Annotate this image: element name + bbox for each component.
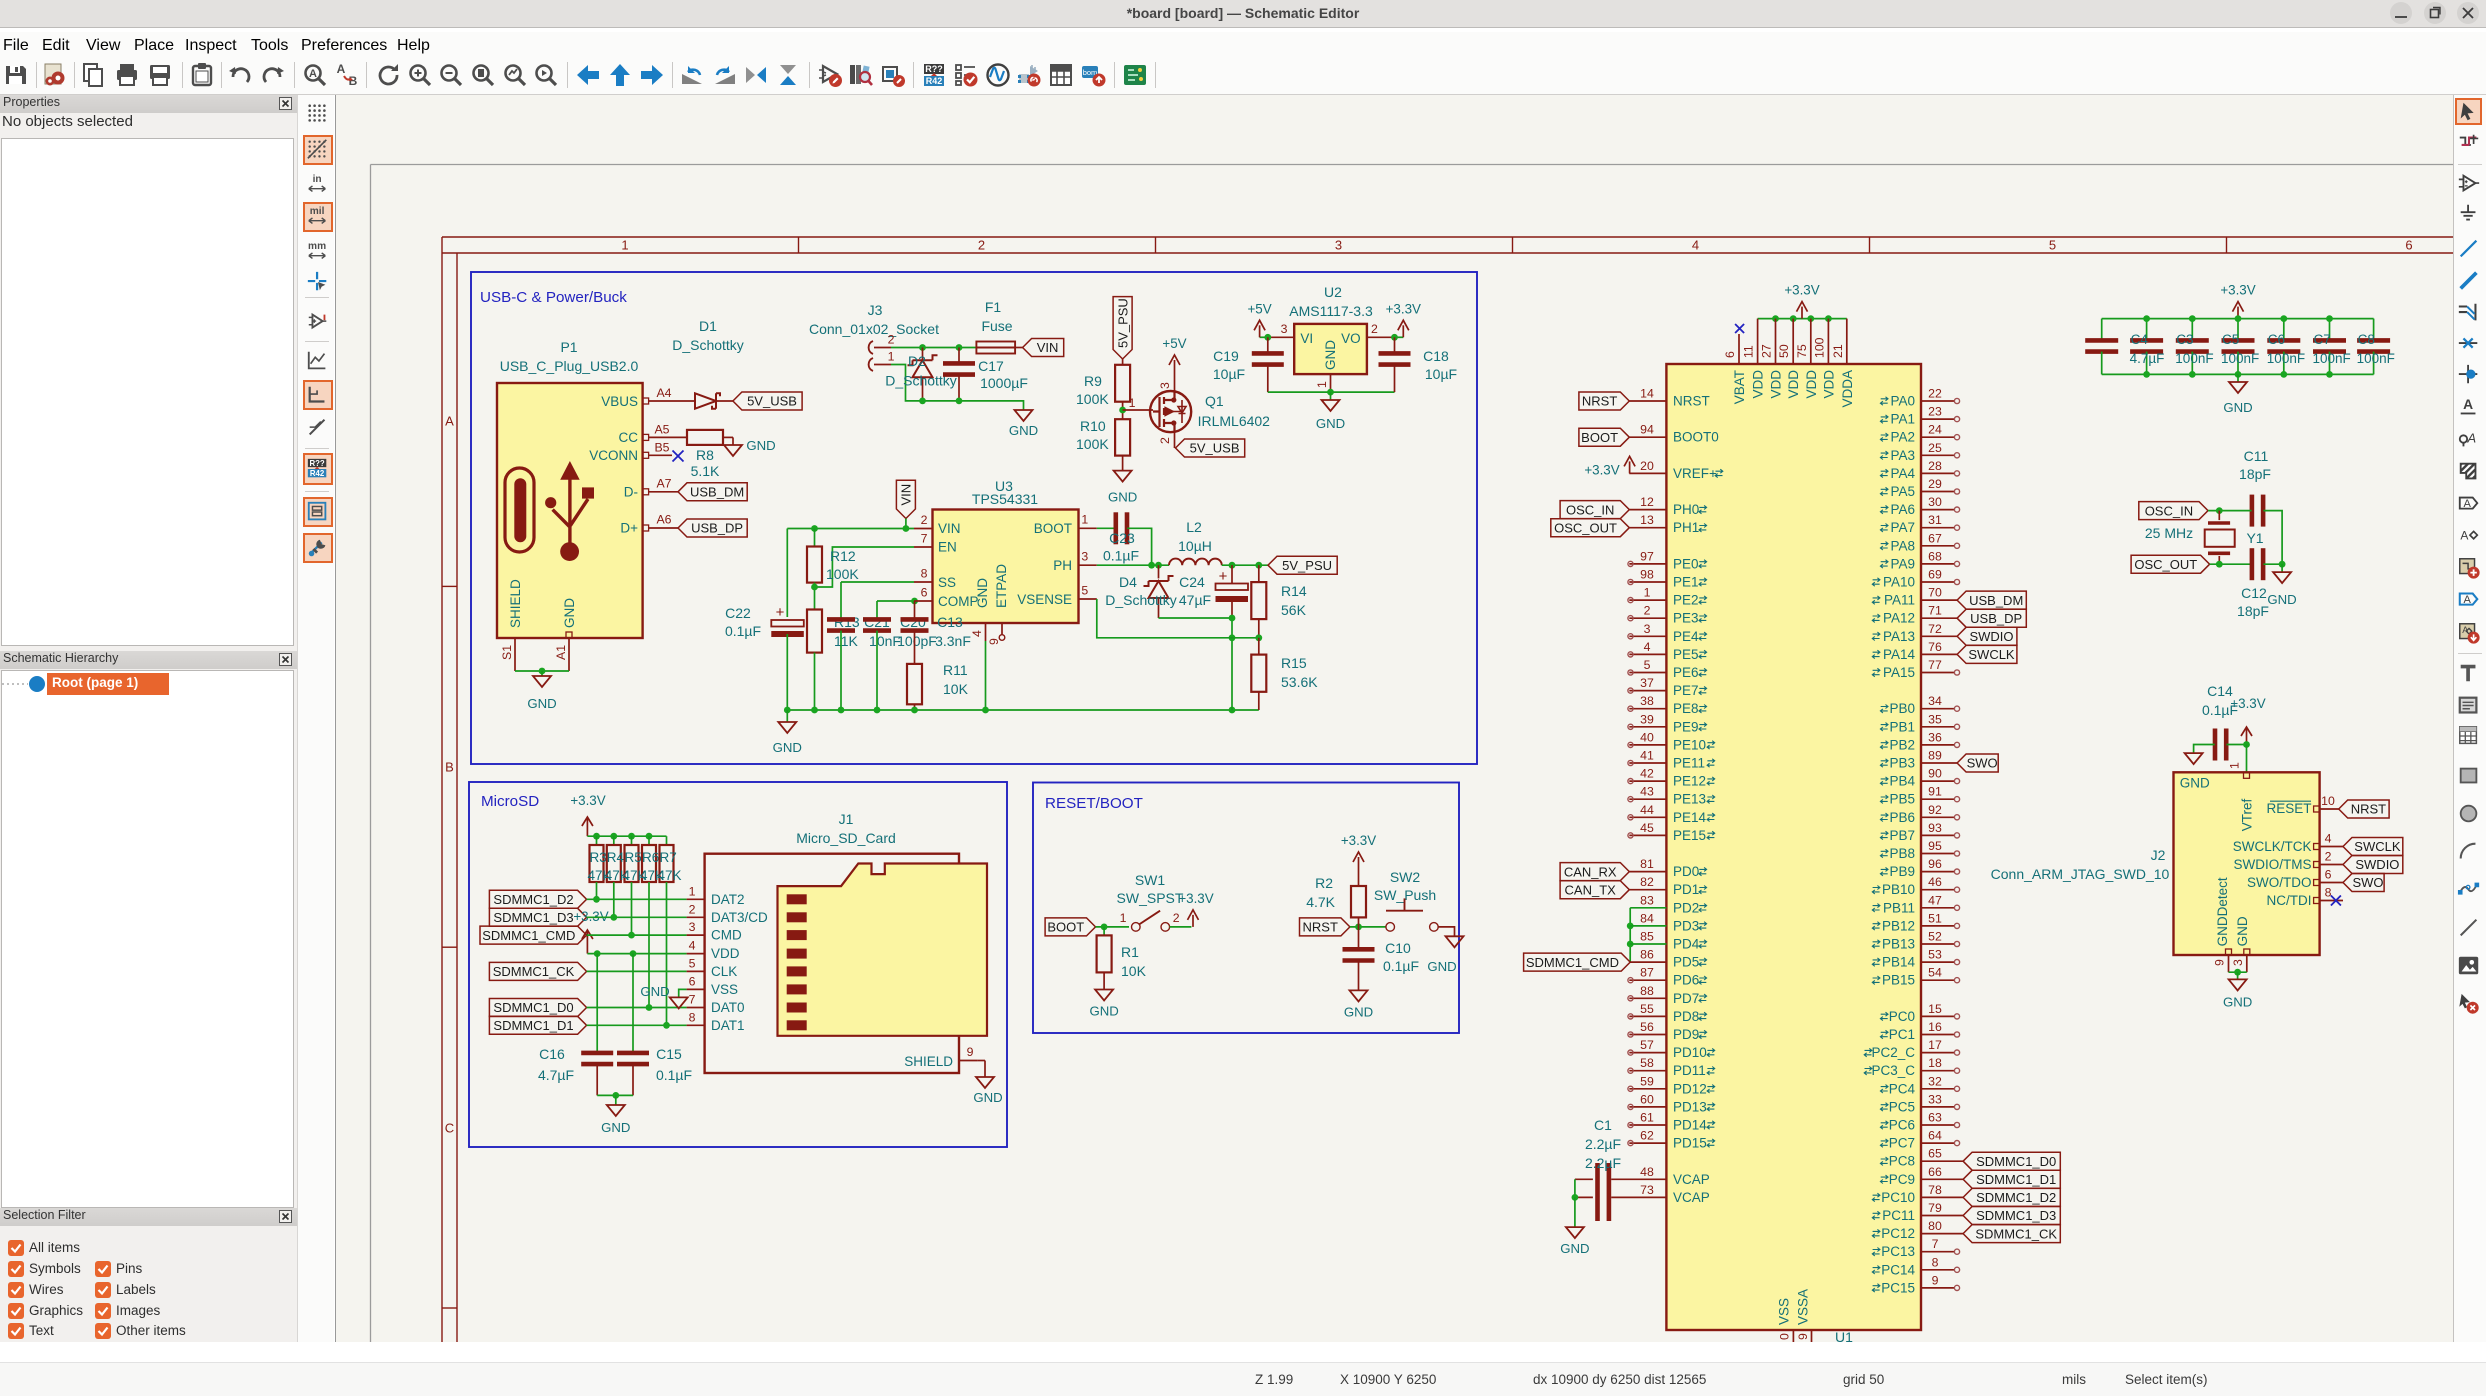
wire VIN label to pin: [905, 519, 907, 529]
global label OSC_IN at MCU: [1560, 501, 1629, 519]
MCU PE pins: [1629, 563, 1666, 565]
svg-text:mm: mm: [308, 241, 326, 252]
ground below R10: [1114, 471, 1132, 482]
global label NRST at J2: [2339, 800, 2389, 818]
global label SDMMC1_D2: [489, 890, 586, 908]
MCU PB pins: [1921, 708, 1954, 710]
global label SDMMC1_D1 at MCU: [1963, 1170, 2060, 1188]
power +3.3V at R2: [1358, 869, 1360, 886]
resistor R1: [1103, 927, 1105, 936]
ground at SHIELD: [976, 1077, 994, 1088]
global label CAN_TX: [1560, 881, 1629, 899]
capacitor C8: [2373, 319, 2375, 341]
MCU pin 94 BOOT0: [1629, 436, 1666, 438]
wire caps to ground: [597, 1094, 633, 1096]
ground below J2: [2229, 979, 2247, 990]
global label USB_DP: [678, 519, 747, 537]
junction COMP node: [911, 598, 918, 605]
crystal Y1: [2218, 511, 2220, 520]
MCU top power rail +3.3V: [1758, 318, 1847, 320]
wire SW2 to ground: [1438, 927, 1454, 936]
left toolbar: [297, 95, 334, 1342]
global label USB_DP: [1957, 609, 2026, 627]
card connector J1 outline: [705, 854, 959, 1073]
wire EN to R12/R13: [815, 547, 915, 587]
no-connect at NC/TDI: [2331, 896, 2341, 906]
pin 5 VSENSE of U3: [1079, 598, 1097, 600]
section box RESET/BOOT: [1033, 783, 1459, 1034]
pin 3 PH of U3: [1079, 564, 1097, 566]
MCU VDDA pin: [1846, 319, 1848, 364]
pin 2 of Q1: [1174, 432, 1176, 448]
junction C18 top: [1391, 334, 1398, 341]
ground below C10: [1350, 990, 1368, 1001]
resistor R11: [907, 664, 922, 704]
ground below U2: [1322, 400, 1340, 411]
global label SDMMC1_CMD at MCU: [1524, 953, 1631, 971]
resistor R2: [1351, 886, 1366, 917]
section box USB-C & Power/Buck: [471, 272, 1477, 764]
diode D1: [695, 393, 716, 408]
diode D4: [1158, 565, 1160, 578]
wire S1-A1 join: [515, 670, 569, 672]
J2 pin 1 VTref: [2244, 772, 2250, 778]
diode D2: [922, 348, 924, 361]
global label 5V_PSU vertical: [1113, 297, 1132, 359]
svg-text:A: A: [2463, 594, 2471, 606]
J2 bottom pins 9 3: [2226, 949, 2232, 955]
MCU pin 82 PD1 CAN_TX: [1629, 889, 1666, 891]
wire SW1 to +3.3V: [1170, 926, 1192, 928]
pin 6 COMP of U3: [914, 600, 933, 602]
pin 2 of J3: [874, 347, 891, 349]
global label OSC_IN: [2139, 502, 2208, 520]
ground at C14: [2185, 753, 2203, 764]
pin 3 of Q1 to +5V: [1174, 372, 1176, 391]
menu bar: [0, 32, 2486, 58]
power +3.3V at cap bank: [2237, 307, 2239, 319]
wire C14 to ground: [2194, 745, 2215, 754]
capacitor C22: [786, 529, 788, 618]
svg-text:B: B: [349, 74, 358, 88]
global label SDMMC1_D0 at MCU: [1963, 1152, 2060, 1170]
VSS pin ground hook: [679, 989, 687, 997]
capacitor C7: [2329, 319, 2331, 341]
transistor Q1: [1150, 391, 1191, 432]
junctions on microSD rows: [593, 896, 600, 903]
global label VIN vertical: [896, 480, 915, 518]
no-connect at VCONN: [673, 451, 684, 462]
global label 5V_USB: [733, 392, 802, 410]
global label USB_DM: [678, 483, 747, 501]
capacitor C3: [2191, 319, 2193, 341]
wire R10 to ground: [1122, 456, 1124, 471]
power +5V at Q1: [1174, 360, 1176, 372]
global label 5V_USB at Q1: [1176, 439, 1245, 457]
pin 9 ETPAD of U3: [1001, 623, 1003, 635]
global label SWDIO: [1957, 627, 2017, 645]
capacitor C19: [1267, 337, 1269, 353]
inductor L2: [1169, 559, 1222, 566]
svg-text:in: in: [313, 174, 322, 185]
svg-text:A: A: [2463, 396, 2473, 412]
global label BOOT at MCU: [1579, 428, 1629, 446]
capacitor C20: [876, 601, 878, 619]
svg-text:R42: R42: [310, 469, 325, 478]
wire R6 to DAT0: [648, 882, 650, 1008]
svg-text:R??: R??: [309, 459, 324, 468]
pin 3 of U2: [1268, 336, 1294, 338]
pin 1 of J3: [874, 364, 891, 366]
MCU pin 12 PH0: [1629, 509, 1666, 511]
svg-text:mil: mil: [310, 206, 325, 217]
resistor R12: [814, 529, 816, 547]
pull-up rail microSD: [587, 835, 666, 837]
resistor R10: [1115, 419, 1130, 455]
wires to J1 pins: [587, 898, 687, 900]
global label SDMMC1_CMD: [480, 926, 587, 944]
junction EN node: [811, 584, 818, 591]
global label SDMMC1_D1: [489, 1016, 586, 1034]
capacitor C16: [581, 1051, 613, 1056]
wire R8 to GND: [723, 436, 733, 438]
global label SWO at J2: [2343, 874, 2384, 892]
schematic canvas: [335, 95, 2453, 1342]
power +3.3V at U2: [1395, 336, 1404, 338]
pin 1 of U2 GND: [1330, 374, 1332, 392]
wire OSC_IN node: [2208, 510, 2252, 512]
wire C11 to vertical: [2263, 511, 2282, 565]
wire VCAP ground: [1574, 1179, 1576, 1197]
capacitor C17: [958, 348, 960, 364]
ground at SW2: [1446, 936, 1464, 947]
connector J2 body: [2174, 772, 2320, 955]
capacitor C5: [2237, 319, 2239, 341]
connector P1 body: [497, 383, 643, 638]
global label SDMMC1_CK: [489, 962, 586, 980]
power +3.3V at VREF+: [1629, 461, 1631, 473]
wire VBUS to D1: [666, 400, 695, 402]
capacitor C15: [617, 1051, 649, 1056]
svg-text:R??: R??: [925, 64, 943, 74]
ground below cap bank: [2237, 374, 2239, 382]
junction C17 bottom: [956, 398, 963, 405]
regulator U2 body: [1294, 324, 1367, 374]
junction D2 bottom: [919, 398, 926, 405]
wire D1 to 5V_USB label: [716, 400, 733, 402]
global label OSC_OUT at MCU: [1551, 519, 1630, 537]
ground at R8: [724, 445, 742, 456]
wire R4 to DAT3: [613, 882, 615, 917]
sheet frame: [442, 237, 2453, 1342]
junction D2 top: [919, 344, 926, 351]
wire R3 to DAT2: [596, 882, 598, 899]
pin 7 EN of U3: [914, 546, 933, 548]
pin 2 VIN of U3: [914, 528, 933, 530]
MCU pin 13 PH1: [1629, 527, 1666, 529]
MCU pin 14 NRST: [1629, 400, 1666, 402]
MCU pin 81 PD0 CAN_RX: [1629, 871, 1666, 873]
wire PH node: [1097, 564, 1169, 566]
pin 4 GND of U3: [985, 623, 987, 641]
wire SS to C21: [841, 581, 914, 583]
wire C12 to ground: [2263, 563, 2282, 565]
wire fuse to VIN label: [1015, 347, 1023, 349]
SD card pads: [787, 894, 807, 904]
wire J3 pin1 down to ground rail: [891, 365, 1024, 411]
ground below C17: [1015, 410, 1033, 421]
svg-text:A: A: [2466, 431, 2476, 446]
resistor R14: [1258, 565, 1260, 582]
J1 pins: [687, 898, 705, 900]
regulator U3 body: [933, 510, 1079, 624]
section box MicroSD: [469, 782, 1007, 1147]
wire C15 column: [632, 954, 634, 1053]
junction at P1 ground: [539, 668, 546, 675]
wire COMP to C20: [877, 600, 914, 602]
capacitor C10: [1358, 927, 1360, 949]
wire C14 to VTref: [2227, 744, 2247, 746]
status bar: [0, 1342, 2486, 1396]
svg-text:A: A: [2460, 529, 2468, 543]
MCU VDD pins: [1757, 319, 1759, 364]
ground below VCAP caps: [1566, 1227, 1584, 1238]
capacitor C12: [2250, 548, 2255, 580]
resistor R13: [807, 610, 822, 653]
global label SDMMC1_D3: [489, 908, 586, 926]
global label OSC_OUT: [2131, 555, 2210, 573]
MCU PD2-PD5 tied wire: [1630, 907, 1666, 909]
wire R7 to DAT1: [666, 882, 668, 1025]
USB icon: [505, 468, 534, 552]
capacitor C24: [1231, 565, 1233, 583]
wire gate to Q1: [1123, 409, 1153, 411]
wire OSC_OUT node: [2210, 563, 2252, 565]
ground below R1: [1095, 990, 1113, 1001]
capacitor C18: [1394, 337, 1396, 353]
SD card shape: [778, 864, 988, 1036]
wire CC to R8: [666, 436, 687, 438]
global label VIN: [1023, 339, 1064, 357]
junction gate node: [1122, 402, 1124, 420]
junction C19 top: [1264, 334, 1271, 341]
svg-text:A: A: [309, 68, 317, 80]
capacitor C23: [1097, 527, 1116, 529]
ground below C22: [778, 722, 796, 733]
J2 RESET pin: [2270, 800, 2311, 802]
wire VSENSE feedback: [1097, 599, 1259, 638]
right toolbar: [2453, 95, 2486, 1342]
global label SDMMC1_D2 at MCU: [1963, 1188, 2060, 1206]
svg-text:A: A: [337, 62, 346, 76]
wire VIN rail: [787, 528, 914, 530]
title bar: [0, 0, 2486, 28]
cap bank top rail: [2102, 318, 2374, 320]
global label SWCLK at J2: [2343, 838, 2403, 856]
cap bank bottom rail: [2102, 373, 2374, 375]
global label SDMMC1_D3 at MCU: [1963, 1207, 2060, 1225]
window buttons: [2388, 1, 2483, 27]
page border: [371, 165, 2454, 1343]
MCU VBAT pin: [1738, 334, 1740, 364]
capacitor C2: [2101, 319, 2103, 341]
capacitors C1 C2 at VCAP: [1595, 1163, 1600, 1221]
pin 8 SS of U3: [914, 581, 933, 583]
global label CAN_RX: [1560, 863, 1629, 881]
wire BOOT node: [1096, 926, 1130, 928]
wire J3 pin2 to fuse: [891, 347, 976, 349]
capacitor C6: [2283, 319, 2285, 341]
resistor R15: [1258, 638, 1260, 655]
MCU PA pins: [1921, 400, 1954, 402]
resistor R8: [687, 430, 723, 445]
power +3.3V at SW1: [1192, 915, 1194, 927]
global label SWO: [1957, 754, 1998, 772]
global label SWDIO at J2: [2343, 856, 2403, 874]
global label SWCLK: [1957, 645, 2017, 663]
capacitor C21: [840, 582, 842, 619]
wire NRST node: [1350, 926, 1386, 928]
ground below C15 C16: [607, 1105, 625, 1116]
junction C17 top: [956, 344, 963, 351]
global label SDMMC1_D0: [489, 999, 586, 1017]
ground below P1: [533, 676, 551, 687]
ground below C12: [2273, 572, 2291, 583]
global label NRST at MCU: [1579, 392, 1629, 410]
resistor R9: [1122, 359, 1124, 365]
canvas background: [336, 95, 2454, 1342]
global label NRST: [1300, 918, 1350, 936]
MCU pin 20 VREF+: [1629, 472, 1666, 474]
global label BOOT: [1045, 918, 1095, 936]
ground rail under U2: [1268, 391, 1395, 393]
global label 5V_PSU: [1268, 556, 1337, 574]
MCU PC pins: [1921, 1015, 1954, 1017]
svg-text:R42: R42: [926, 76, 943, 86]
capacitor C13: [914, 601, 916, 619]
power +5V at U2: [1260, 336, 1268, 338]
global label SDMMC1_CK at MCU: [1963, 1225, 2060, 1243]
pin 2 of U2: [1367, 336, 1395, 338]
wire C16 column: [596, 954, 598, 1053]
left panels: [0, 95, 297, 1342]
global label USB_DM: [1957, 591, 2026, 609]
wire D4 to C24 bottom: [1159, 617, 1233, 619]
wire J2 ground join: [2229, 971, 2247, 973]
MCU PD6-PD15 pins: [1629, 979, 1666, 981]
junction VSENSE crossing: [1229, 634, 1236, 641]
svg-text:A: A: [2463, 498, 2471, 510]
MCU U1 body: [1666, 364, 1921, 1330]
ground at VSS: [670, 997, 688, 1008]
capacitor C4: [2146, 319, 2148, 341]
wire L2 to 5V_PSU: [1222, 564, 1268, 566]
resistors R3 R4 R5 R6 R7: [596, 836, 598, 845]
ground rail of buck: [787, 709, 1259, 711]
pin 1 BOOT of U3: [1079, 527, 1097, 529]
wire R5 to CMD: [631, 882, 633, 935]
